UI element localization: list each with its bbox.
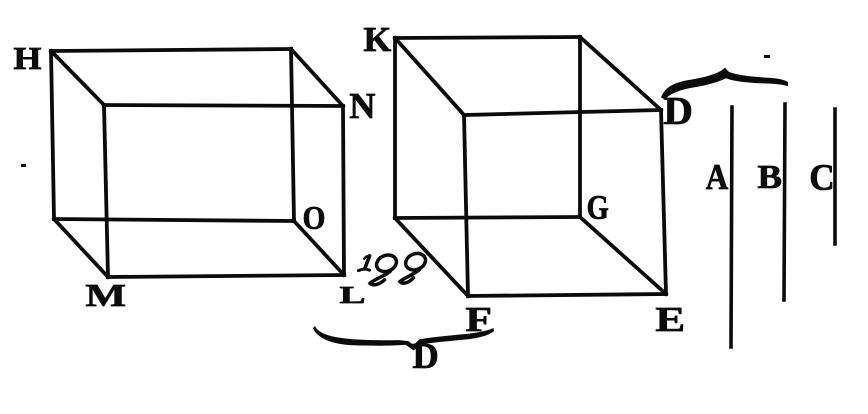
wire left box back-left vertical edge	[51, 51, 54, 219]
label L	[340, 287, 364, 303]
wire left box bottom-right diagonal O-L	[294, 221, 344, 275]
wire right box back-left vertical edge	[393, 38, 397, 218]
wire right box back-right vertical edge at G	[578, 37, 582, 217]
wire right box bottom-left diagonal at F	[395, 218, 468, 296]
line segment C	[833, 109, 837, 244]
label N	[350, 94, 375, 118]
brace over lines A and B	[661, 68, 788, 99]
label D right box corner	[664, 98, 691, 124]
label M	[86, 285, 125, 306]
label E	[656, 308, 683, 331]
wire right box top-left diagonal at K	[395, 38, 464, 115]
figure number 199 second digit 9	[400, 251, 428, 284]
label B	[758, 166, 781, 188]
wire left box front-right vertical edge N-L	[343, 106, 344, 275]
speck dot above right brace	[764, 55, 770, 58]
line segment A	[731, 107, 732, 347]
wire left box back bottom edge	[54, 219, 294, 221]
label F	[466, 308, 490, 331]
wire right box top front edge at D	[464, 110, 661, 115]
line segment B	[784, 104, 785, 300]
figure number 199 digit 1	[358, 256, 369, 271]
wire left box top-left diagonal at H	[51, 51, 104, 105]
wire right box back bottom edge	[395, 217, 580, 218]
label O	[304, 207, 324, 229]
label H	[14, 48, 41, 69]
wire right box front-left vertical edge	[464, 115, 468, 296]
label G	[588, 196, 608, 219]
wire left box back-right vertical edge	[291, 49, 294, 221]
wire right box front bottom edge F-E	[468, 294, 666, 296]
wire left box front-left vertical edge	[104, 105, 108, 277]
wire left box bottom-left diagonal at M	[54, 219, 108, 277]
label A	[706, 165, 728, 189]
wire right box top back edge at K	[395, 37, 580, 38]
wire left box top back edge	[51, 49, 291, 51]
brace under left box bottom, labelled D	[313, 326, 494, 350]
wire left box front bottom edge M-L	[108, 275, 344, 277]
label D under brace	[413, 344, 437, 368]
wire right box bottom-right diagonal G-E	[580, 217, 666, 294]
wire left box top front edge	[104, 105, 343, 106]
label C	[811, 165, 832, 190]
label K	[364, 28, 391, 51]
figure number 199 first digit 9	[370, 252, 399, 285]
wire right box front-right vertical edge D-E	[661, 110, 666, 294]
wire right box top-right diagonal at D	[580, 37, 661, 110]
wire left box top-right diagonal at N	[291, 49, 343, 106]
speck dot in left margin	[21, 164, 26, 167]
